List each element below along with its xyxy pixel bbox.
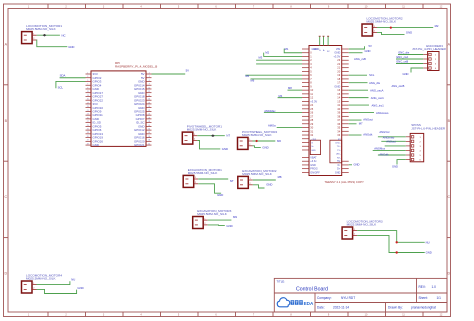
- svg-text:28: 28: [148, 121, 150, 123]
- svg-text:M8: M8: [278, 175, 282, 179]
- svg-text:C: C: [4, 195, 7, 199]
- svg-text:33: 33: [87, 132, 89, 134]
- svg-text:11: 11: [87, 91, 89, 93]
- svg-text:EDA: EDA: [304, 301, 314, 306]
- svg-text:3: 3: [87, 76, 88, 78]
- svg-text:Date:: Date:: [317, 306, 325, 310]
- wire GND (PIVOTWHEEL_MOTOR2): [253, 146, 269, 150]
- svg-text:M025.5MM-NO_SILK: M025.5MM-NO_SILK: [242, 133, 273, 137]
- wire GND (LOCOMOTION_MOTOR4): [37, 286, 84, 293]
- svg-text:D: D: [447, 271, 450, 275]
- svg-text:GND: GND: [426, 251, 432, 255]
- svg-text:8: 8: [149, 84, 150, 86]
- svg-text:37: 37: [87, 140, 89, 142]
- svg-text:GND: GND: [217, 193, 223, 197]
- svg-text:ANGVcc: ANGVcc: [379, 130, 390, 134]
- svg-text:5V: 5V: [337, 160, 340, 163]
- wire M5 (teensy pin6): [245, 74, 302, 78]
- svg-text:pranavnedunghat: pranavnedunghat: [411, 306, 436, 310]
- svg-text:M2: M2: [265, 51, 269, 55]
- transistor U2 : IC TEENSY 4.1 (ALL PINS COPY): [302, 36, 364, 184]
- svg-text:NU: NU: [426, 240, 430, 244]
- svg-text:M3: M3: [259, 56, 263, 60]
- svg-text:AMGa: AMGa: [268, 124, 276, 128]
- svg-text:19: 19: [87, 106, 89, 108]
- svg-text:ANG_csB: ANG_csB: [354, 57, 366, 61]
- svg-text:VIN: VIN: [336, 47, 340, 51]
- svg-text:M025.5MM-NO_SILK: M025.5MM-NO_SILK: [367, 20, 398, 24]
- svg-text:35: 35: [87, 136, 89, 138]
- svg-text:18: 18: [148, 102, 150, 104]
- svg-text:M025.5MM-NO_SILK: M025.5MM-NO_SILK: [242, 172, 273, 176]
- svg-text:31: 31: [87, 129, 89, 131]
- svg-text:14: 14: [148, 95, 150, 97]
- wire ENC_dts: [398, 51, 423, 55]
- wire M8 (teensy pin10): [288, 86, 303, 90]
- svg-text:ANGout: ANGout: [363, 118, 373, 122]
- svg-text:5V: 5V: [186, 68, 190, 72]
- svg-text:Drawn By:: Drawn By:: [388, 306, 403, 310]
- svg-text:NYU RDT: NYU RDT: [341, 296, 355, 300]
- svg-text:NT: NT: [226, 134, 230, 138]
- svg-text:M025.5MM-NO_SILK: M025.5MM-NO_SILK: [26, 27, 57, 31]
- wire GND (EXCAVATION_MOTOR1): [198, 184, 223, 197]
- wire ANG_csA: [349, 88, 384, 92]
- svg-text:ANGout: ANGout: [386, 140, 396, 144]
- svg-text:GPIO21: GPIO21: [134, 143, 145, 147]
- svg-text:GND: GND: [310, 164, 316, 167]
- wire ANG_dts: [349, 81, 405, 88]
- svg-text:GND: GND: [311, 150, 316, 152]
- svg-text:13: 13: [87, 95, 89, 97]
- connector LOCOMOTION_MOTOR2: [362, 16, 403, 36]
- wire M3 (teensy pin2): [256, 56, 302, 61]
- wire NU (LOCOMOTION_MOTOR4): [37, 278, 76, 285]
- svg-text:C: C: [447, 195, 450, 199]
- svg-text:LED+: LED+: [335, 143, 341, 145]
- svg-text:LED-: LED-: [336, 154, 341, 156]
- svg-text:+3.3v: +3.3v: [310, 160, 317, 163]
- wire M4 (teensy pin12): [278, 94, 302, 98]
- wire M7: [349, 121, 363, 125]
- svg-text:ANG_oscB: ANG_oscB: [392, 84, 405, 88]
- wire GND (SPI): [392, 160, 406, 169]
- wire M8 (EXCAVATION_MOTOR2): [253, 175, 282, 180]
- svg-text:M2: M2: [435, 24, 439, 28]
- wire NT (EXCAVATION_MOTOR1): [198, 179, 234, 183]
- connector PIVOTWHEEL_MOTOR1: [182, 125, 222, 145]
- svg-text:34: 34: [148, 132, 150, 134]
- wire SCL (teensy): [349, 73, 375, 77]
- svg-text:24: 24: [148, 114, 150, 116]
- svg-text:2: 2: [149, 72, 150, 74]
- wire M1 (teensy pin0): [284, 47, 302, 53]
- wire 5V (RPI pin2): [152, 68, 190, 74]
- svg-text:ENC_csA: ENC_csA: [397, 55, 409, 59]
- svg-text:GND: GND: [262, 146, 268, 150]
- svg-text:5V: 5V: [369, 44, 372, 48]
- connector SPI/SS JST-PH_6-PIN_HEADER: [406, 123, 446, 162]
- connector PIVOTWHEEL_MOTOR2: [238, 130, 278, 150]
- wire ANGout (SPI): [385, 140, 406, 146]
- connector EXCAVATION_MOTOR2: [238, 169, 277, 189]
- EasyEDA logo: [277, 298, 314, 307]
- svg-text:36: 36: [148, 136, 150, 138]
- svg-text:TEENSY 4.1 (ALL PINS) COPY: TEENSY 4.1 (ALL PINS) COPY: [325, 180, 364, 184]
- svg-text:+3.3V: +3.3V: [310, 99, 317, 103]
- svg-text:REV:: REV:: [419, 285, 426, 289]
- wire AMGMin (teensy): [268, 124, 302, 128]
- wire ANGclk: [349, 133, 373, 137]
- wire GND (encoder): [403, 68, 424, 76]
- wire M1: [37, 33, 66, 37]
- svg-text:6: 6: [149, 80, 150, 82]
- svg-text:M1: M1: [285, 47, 289, 51]
- wire SDA: [60, 74, 86, 78]
- svg-text:M4: M4: [279, 94, 283, 98]
- svg-text:M9: M9: [233, 215, 237, 219]
- svg-text:15: 15: [87, 99, 89, 101]
- connector LOCOMOTION_MOTOR1: [22, 24, 63, 44]
- svg-text:NC: NC: [62, 33, 66, 37]
- op-amp U1 : IC RPI RASPBERRY_PI_4_MODEL_B: [86, 61, 158, 147]
- svg-text:1/1: 1/1: [437, 296, 442, 300]
- wire 5V (teensy VIN): [349, 44, 372, 49]
- svg-text:27: 27: [87, 121, 89, 123]
- wire M6 (PIVOTWHEEL_MOTOR2): [253, 139, 282, 143]
- svg-text:GND: GND: [334, 51, 340, 55]
- wire GND (LOCOMOTION_MOTOR3): [357, 235, 432, 254]
- wire M2 (teensy pin1): [264, 51, 302, 57]
- svg-text:32: 32: [148, 129, 150, 131]
- svg-text:Sheet:: Sheet:: [419, 296, 428, 300]
- svg-text:23: 23: [87, 114, 89, 116]
- svg-text:ANGmiso: ANGmiso: [383, 135, 395, 139]
- title block: [274, 278, 447, 312]
- svg-text:GND: GND: [77, 286, 83, 290]
- svg-text:+3V3: +3V3: [311, 139, 317, 141]
- svg-text:ANGMux: ANGMux: [374, 146, 386, 150]
- connector EXCAVATION_MOTOR1: [183, 168, 222, 188]
- wire ANG_csB long: [354, 57, 366, 61]
- svg-text:ANG_oscA: ANG_oscA: [370, 88, 384, 92]
- wire ENC_csB: [396, 60, 423, 64]
- svg-text:GND: GND: [334, 84, 340, 88]
- wire NT (PIVOTWHEEL_MOTOR1): [197, 134, 230, 138]
- svg-text:39: 39: [87, 143, 89, 145]
- wire AMGMax (teensy): [264, 109, 302, 113]
- svg-text:GND: GND: [93, 143, 99, 147]
- svg-text:SCL: SCL: [58, 86, 64, 90]
- wire M4 (LOCOMOTION_MOTOR3): [357, 231, 430, 245]
- svg-text:TITLE:: TITLE:: [277, 280, 286, 284]
- wire ANGmiso (SPI): [381, 135, 405, 141]
- wire node (teensy pin3): [256, 63, 302, 65]
- wire GND (LOCOMOTION_MOTOR2): [377, 30, 412, 34]
- wire ANGMux (SPI): [373, 146, 406, 150]
- wire GND (PIVOTWHEEL_MOTOR1): [197, 141, 228, 152]
- svg-text:17: 17: [87, 102, 89, 104]
- svg-text:RX-: RX-: [337, 157, 341, 159]
- svg-text:4: 4: [149, 76, 150, 78]
- svg-text:M025.5MM-NO_SILK: M025.5MM-NO_SILK: [187, 128, 218, 132]
- svg-text:ENC_csB: ENC_csB: [397, 60, 409, 64]
- svg-text:AMGMax: AMGMax: [264, 109, 276, 113]
- wire GND (EXCAVATION_MOTOR3): [208, 224, 233, 228]
- svg-text:GND: GND: [68, 45, 74, 49]
- wire ENC_csA: [396, 55, 423, 59]
- svg-text:5: 5: [87, 80, 88, 82]
- svg-text:NU: NU: [71, 278, 75, 282]
- svg-text:TX-: TX-: [337, 150, 341, 152]
- svg-text:SDA: SDA: [60, 74, 66, 78]
- svg-text:D: D: [4, 271, 7, 275]
- svg-text:7: 7: [87, 84, 88, 86]
- svg-text:M025.5MM-NO_SILK: M025.5MM-NO_SILK: [26, 277, 57, 281]
- svg-text:40: 40: [148, 143, 150, 145]
- wire M6 (teensy pin7): [251, 79, 303, 83]
- wire M9 (EXCAVATION_MOTOR3): [208, 215, 238, 220]
- svg-text:PROG: PROG: [310, 168, 317, 171]
- wire ANGVcc (SPI): [378, 130, 406, 137]
- svg-text:Company:: Company:: [317, 296, 332, 300]
- svg-text:GND: GND: [266, 182, 272, 186]
- svg-text:GND: GND: [365, 49, 371, 53]
- wire ANG_csB: [349, 96, 385, 100]
- svg-text:NT: NT: [230, 179, 234, 183]
- wire ANGclk (SPI): [378, 152, 406, 156]
- svg-text:M5: M5: [245, 74, 249, 78]
- svg-text:D-: D-: [338, 164, 341, 167]
- wire ANG_inc1: [349, 104, 385, 108]
- svg-text:10: 10: [148, 87, 150, 89]
- wire M2 (LOCOMOTION_MOTOR2): [377, 24, 439, 29]
- svg-text:M6: M6: [251, 79, 255, 83]
- wire GND (teensy bottom): [349, 163, 360, 167]
- connector EXCAVATION_MOTOR3: [193, 209, 232, 229]
- svg-text:M025.5MM-NO_SILK: M025.5MM-NO_SILK: [197, 212, 228, 216]
- wire GND (teensy): [349, 49, 371, 53]
- svg-text:29: 29: [87, 125, 89, 127]
- connector LOCOMOTION_MOTOR4: [22, 273, 63, 293]
- svg-text:GND: GND: [392, 164, 398, 168]
- svg-text:1.0: 1.0: [432, 285, 437, 289]
- connector LOCOMOTION_MOTOR3: [342, 219, 383, 239]
- svg-text:GND: GND: [354, 163, 360, 167]
- svg-text:M025.5MM-NO_SILK: M025.5MM-NO_SILK: [188, 171, 219, 175]
- svg-text:GND: GND: [314, 47, 320, 51]
- wire SCL: [56, 81, 86, 89]
- svg-text:JST-PH_6-PIN_HEADER: JST-PH_6-PIN_HEADER: [411, 126, 446, 130]
- svg-text:ANG_dts: ANG_dts: [369, 81, 381, 85]
- svg-text:16: 16: [148, 99, 150, 101]
- svg-text:ANG_osc1: ANG_osc1: [371, 96, 385, 100]
- svg-text:22: 22: [148, 110, 150, 112]
- svg-text:M025.5MM-NO_SILK: M025.5MM-NO_SILK: [347, 223, 378, 227]
- svg-text:SCL: SCL: [369, 73, 375, 77]
- connector ENCODER3 JST-PH_4-PIN_HEADER: [412, 44, 447, 71]
- wire ANGmiso: [349, 111, 389, 115]
- svg-text:12: 12: [148, 91, 150, 93]
- svg-text:GND: GND: [403, 72, 409, 76]
- svg-text:1: 1: [87, 72, 88, 74]
- svg-text:GND: GND: [226, 224, 232, 228]
- svg-text:ON/OFF: ON/OFF: [310, 171, 320, 174]
- wire GND (EXCAVATION_MOTOR2): [253, 182, 273, 188]
- svg-text:JST-PH_4-PIN_HEADER: JST-PH_4-PIN_HEADER: [412, 47, 447, 51]
- svg-text:30: 30: [148, 125, 150, 127]
- wire ANGout: [349, 118, 373, 122]
- svg-text:26: 26: [148, 117, 150, 119]
- svg-text:M6: M6: [277, 139, 281, 143]
- svg-text:ANG_inc1: ANG_inc1: [372, 104, 385, 108]
- wire GND (LOCOMOTION_MOTOR1): [37, 40, 75, 49]
- svg-text:2022-11-14: 2022-11-14: [333, 306, 349, 310]
- svg-text:+3.3V: +3.3V: [333, 54, 340, 58]
- svg-text:Control Board: Control Board: [296, 286, 328, 292]
- svg-text:ENC_dts: ENC_dts: [399, 51, 410, 55]
- svg-text:25: 25: [87, 117, 89, 119]
- svg-text:RASPBERRY_PI_4_MODEL_B: RASPBERRY_PI_4_MODEL_B: [115, 65, 157, 69]
- svg-text:GND: GND: [335, 171, 341, 174]
- svg-text:38: 38: [148, 140, 150, 142]
- svg-text:M7: M7: [359, 121, 363, 125]
- svg-text:VBAT: VBAT: [310, 156, 317, 159]
- svg-text:ANGclk: ANGclk: [363, 133, 373, 137]
- svg-text:21: 21: [87, 110, 89, 112]
- svg-text:GND: GND: [222, 147, 228, 151]
- svg-text:20: 20: [148, 106, 150, 108]
- svg-text:ANGmoso: ANGmoso: [376, 111, 389, 115]
- svg-text:GND: GND: [406, 30, 412, 34]
- svg-text:ANGclk: ANGclk: [379, 152, 389, 156]
- svg-text:M8: M8: [288, 86, 292, 90]
- svg-text:9: 9: [87, 87, 88, 89]
